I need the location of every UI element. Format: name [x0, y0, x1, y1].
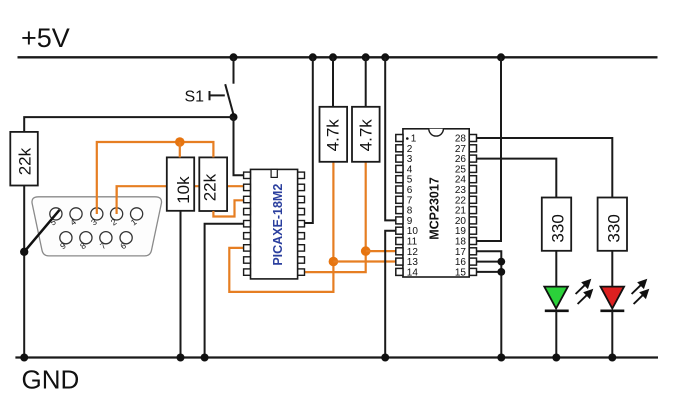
resistor R3 10k — [167, 157, 194, 210]
wire: DB9 pin2 vertical (orange) — [115, 186, 117, 214]
node: +5V junction PICAXE supply — [309, 53, 317, 61]
wire: DB9 pin3 to 10k/22k tops (orange) — [97, 142, 214, 214]
wire: MCP pin28 to red LED resistor — [477, 138, 613, 198]
node: +5V junction at S1 — [230, 53, 238, 61]
wire: rail to MCP pin18 — [477, 57, 502, 241]
node: +5V junction MCP reset — [497, 53, 505, 61]
DB9 pin 7 — [100, 232, 112, 244]
MCP pins left 1-14 — [396, 135, 403, 276]
wire: MCP pin17 to GND — [477, 251, 502, 357]
wire: PICAXE pin5 to GND — [205, 224, 244, 358]
svg-text:330: 330 — [549, 214, 568, 242]
+5V rail — [18, 56, 658, 58]
wire: rail to PICAXE pin14 — [304, 57, 313, 223]
wire: MCP pin16 stub — [477, 261, 502, 263]
node: GND dot green LED — [552, 354, 560, 362]
svg-text:15: 15 — [455, 267, 467, 278]
node: GND dot MCP inputs — [497, 354, 505, 362]
LED D1 green — [544, 287, 568, 311]
wire: 330 to green LED — [555, 251, 557, 287]
node: SCL junction (orange) — [361, 246, 371, 256]
svg-text:22k: 22k — [201, 173, 220, 201]
wire: rail to 4.7k R5 — [365, 57, 367, 107]
DB9 pin 9 — [60, 232, 72, 244]
svg-text:S1: S1 — [185, 89, 205, 106]
node: GND dot MCP — [381, 354, 389, 362]
DB9 connector body — [32, 197, 162, 256]
node: GND dot PICAXE — [201, 354, 209, 362]
node: GND dot 10k — [177, 354, 185, 362]
node: GND dot red LED — [608, 354, 616, 362]
node: junction pin15 — [497, 268, 505, 276]
PICAXE pins left 1-9 — [244, 172, 251, 275]
DB9 pin 4 — [70, 208, 82, 220]
resistor R5 4.7k — [352, 107, 380, 162]
node: +5V junction MCP VDD — [381, 53, 389, 61]
DB9 pin 5 — [50, 208, 62, 220]
resistor R7 330 — [598, 198, 627, 251]
node: SDA junction (orange) — [329, 257, 339, 267]
wire: rail to 4.7k R4 — [332, 57, 334, 107]
svg-text:GND: GND — [22, 365, 80, 395]
IC U2 MCP23017 — [403, 129, 469, 277]
LED D2 red — [600, 287, 624, 311]
resistor R2 22k (serial in) — [199, 157, 227, 211]
wire: SCL to MCP pin12 (orange) — [366, 250, 396, 252]
wire: rail to switch — [233, 57, 235, 83]
svg-text:4.7k: 4.7k — [324, 119, 343, 152]
DB9 pin 3 — [91, 208, 103, 220]
wire: red LED to GND — [611, 311, 613, 358]
light arrows D1 — [576, 280, 592, 304]
svg-text:+5V: +5V — [21, 23, 70, 53]
node: S1 output junction — [230, 113, 238, 121]
wire: MCP pin10 VSS to GND — [385, 231, 396, 358]
wire: PICAXE pin10 to SCL net (orange) — [304, 162, 366, 272]
resistor R6 330 — [542, 198, 571, 251]
wire: junction to 10k top (orange) — [179, 142, 181, 157]
wire: 330 to red LED — [611, 251, 613, 287]
wire: rail to MCP pin9 VDD — [385, 57, 396, 220]
DB9 pin 1 — [131, 208, 143, 220]
node: +5V junction 4.7k R4 — [329, 53, 337, 61]
wire: DB9 pin2 to PICAXE pin2 (orange, passes behind resistors) — [117, 186, 244, 214]
node: junction pin16 — [497, 258, 505, 266]
wire: green LED to GND — [555, 311, 557, 358]
wire: 22k R2 bottom to PICAXE pin3 (orange) — [213, 200, 243, 216]
svg-text:PICAXE-18M2: PICAXE-18M2 — [271, 184, 285, 266]
MCP pin numbers right — [455, 134, 467, 279]
MCP pins right 28-15 — [469, 135, 476, 276]
svg-text:10k: 10k — [174, 176, 193, 204]
wire: 10k bottom to GND — [180, 211, 182, 358]
svg-text:14: 14 — [407, 267, 419, 278]
DB9 pin 2 — [111, 208, 123, 220]
wire: SDA to MCP pin13 (orange) — [333, 260, 396, 262]
DB9 pin 8 — [80, 232, 92, 244]
wire: 22k R1 bottom to GND — [23, 186, 25, 358]
wire: junction to 22k R1 top — [24, 117, 233, 132]
svg-text:330: 330 — [604, 214, 623, 242]
IC U1 PICAXE-18M2 — [251, 169, 298, 279]
GND rail — [15, 356, 658, 358]
light arrows D2 — [632, 280, 648, 304]
wire: MCP pin15 stub — [477, 271, 502, 273]
resistor R4 4.7k — [320, 107, 348, 162]
wire: MCP pin26 to green LED resistor — [477, 159, 557, 198]
wire: S1 junction to PICAXE pin1 — [234, 117, 244, 175]
wire: PICAXE pin7 to SDA net (orange) — [229, 162, 333, 292]
MCP pin numbers left — [407, 134, 419, 279]
node: +5V junction 4.7k R5 — [362, 53, 370, 61]
DB9 pin 6 — [120, 232, 132, 244]
resistor R1 22k — [10, 132, 38, 186]
node: junction DB9 pin5 / ground line — [20, 248, 28, 256]
svg-text:4.7k: 4.7k — [356, 119, 375, 152]
MCP pin1 index dot — [406, 137, 409, 140]
svg-text:22k: 22k — [15, 147, 34, 175]
wire: DB9 pin5 to ground line (diagonal) — [24, 210, 59, 252]
svg-text:MCP23017: MCP23017 — [427, 177, 441, 240]
PICAXE pins right 18-10 — [298, 172, 305, 275]
node: orange junction above 10k — [175, 137, 185, 147]
node: GND dot left — [20, 354, 28, 362]
switch S1 — [185, 84, 234, 115]
